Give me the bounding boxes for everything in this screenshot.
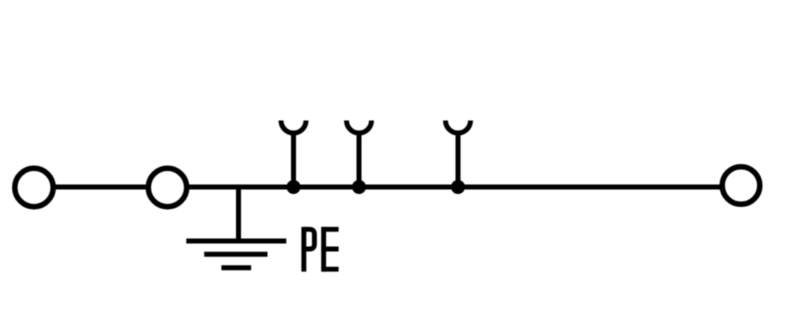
wire: main horizontal bus from middle terminal to right terminal xyxy=(168,185,742,190)
terminal circle left xyxy=(15,168,53,206)
clamp contact 3 (fork) xyxy=(446,121,471,188)
junction dot 2 xyxy=(352,180,366,194)
junction dot 1 xyxy=(287,180,301,194)
label PE xyxy=(304,227,339,272)
ground symbol (earth) xyxy=(186,241,286,268)
terminal circle middle xyxy=(148,168,186,206)
clamp contact 2 (fork) xyxy=(347,121,372,188)
terminal circle right xyxy=(722,167,760,205)
wire: ground stem xyxy=(236,187,241,241)
wire: left terminal to middle terminal xyxy=(34,185,168,190)
clamp contact 1 (fork) xyxy=(281,121,306,188)
junction dot 3 xyxy=(451,180,465,194)
